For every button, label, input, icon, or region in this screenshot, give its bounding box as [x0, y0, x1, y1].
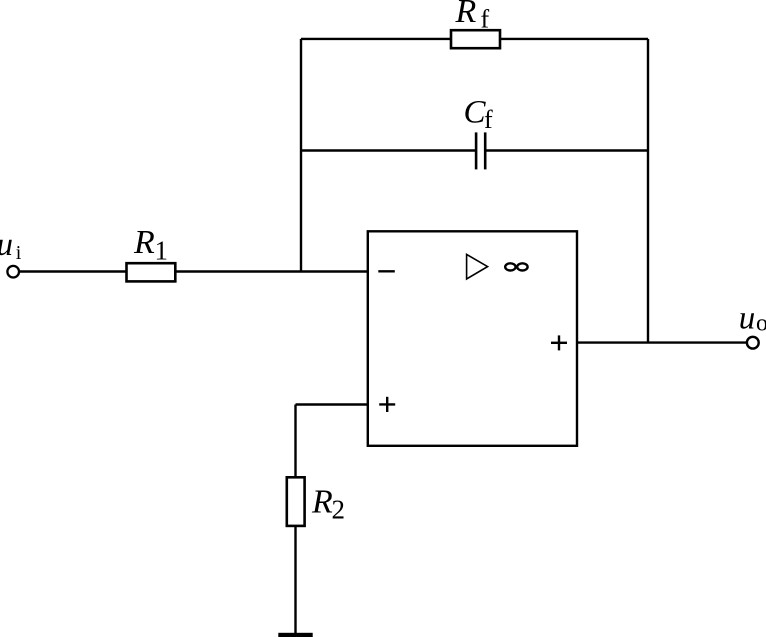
wire right feedback vertical down to output [647, 39, 649, 343]
wire left feedback vertical (node inverting input up to Rf/Cf) [300, 39, 302, 272]
terminal uo [747, 337, 759, 349]
wire Cf left horizontal [301, 149, 475, 151]
svg-text:f: f [484, 105, 493, 134]
label uo [739, 301, 766, 337]
svg-text:2: 2 [332, 494, 346, 524]
label Rf [455, 0, 490, 34]
wire Rf top horizontal [301, 38, 648, 40]
wire Cf right horizontal [486, 149, 648, 151]
wire R2 to ground [294, 526, 296, 634]
svg-text:u: u [739, 301, 756, 337]
svg-text:R: R [455, 0, 477, 30]
infinity ideal-gain symbol [505, 263, 527, 270]
minus sign inverting input [378, 270, 395, 272]
triangle amplifier symbol [467, 254, 488, 279]
svg-text:f: f [481, 5, 490, 34]
plus sign output polarity [551, 335, 567, 350]
op-amp U1 box [368, 231, 577, 445]
svg-text:R: R [311, 483, 333, 520]
svg-text:1: 1 [155, 235, 169, 265]
wire vertical from non-inverting node down to R2 [294, 405, 296, 478]
resistor R1 [127, 263, 176, 281]
label R2 [311, 483, 345, 524]
ground [278, 633, 312, 637]
label ui [0, 227, 22, 264]
plus sign non-inverting input [379, 397, 395, 412]
svg-text:i: i [16, 242, 22, 264]
svg-text:u: u [0, 227, 13, 263]
resistor R2 [287, 477, 305, 526]
wire non-inverting input horizontal [296, 403, 368, 405]
capacitor Cf [476, 132, 485, 169]
svg-text:o: o [756, 311, 766, 337]
label R1 [133, 224, 168, 265]
wire output from op-amp to uo terminal [577, 341, 747, 343]
svg-text:R: R [133, 224, 155, 261]
resistor Rf [451, 30, 500, 48]
label Cf [464, 95, 494, 134]
terminal ui [7, 266, 19, 278]
wire input from ui terminal to op-amp inverting input [19, 270, 367, 272]
